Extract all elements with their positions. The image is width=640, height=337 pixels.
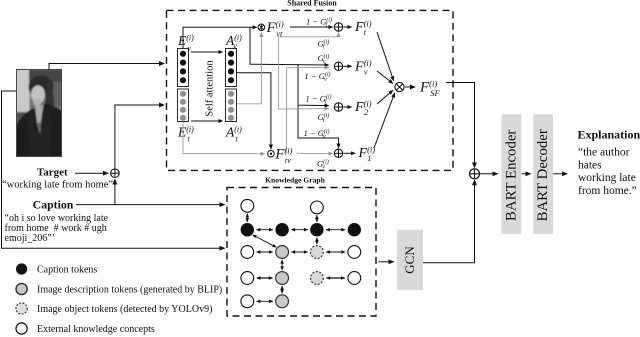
- svg-text:G(i)v: G(i)v: [317, 159, 329, 171]
- svg-text:Knowledge Graph: Knowledge Graph: [265, 176, 325, 185]
- svg-text:1 − G(i)v: 1 − G(i)v: [305, 71, 331, 83]
- svg-text:working late: working late: [578, 172, 636, 184]
- svg-text:A(i)t: A(i)t: [225, 125, 242, 144]
- svg-text:GCN: GCN: [402, 246, 417, 274]
- svg-text:F(i)1: F(i)1: [358, 144, 376, 163]
- svg-text:Shared Fusion: Shared Fusion: [287, 0, 337, 7]
- svg-text:Caption tokens: Caption tokens: [37, 265, 97, 276]
- svg-text:External knowledge concepts: External knowledge concepts: [37, 324, 155, 335]
- svg-text:G(i)t: G(i)t: [318, 112, 330, 124]
- svg-text:from home.”: from home.”: [578, 185, 637, 197]
- svg-text:1 − G(i)t: 1 − G(i)t: [306, 93, 332, 105]
- svg-text:BART Encoder: BART Encoder: [504, 130, 520, 221]
- svg-text:F(i)vt: F(i)vt: [266, 19, 284, 39]
- svg-text:Caption: Caption: [33, 197, 74, 211]
- svg-text:F(i)t: F(i)t: [354, 18, 372, 37]
- svg-text:G(i)t: G(i)t: [318, 38, 330, 50]
- svg-text:Image description tokens (gene: Image description tokens (generated by B…: [37, 285, 222, 296]
- svg-text:F(i)tv: F(i)tv: [274, 145, 292, 165]
- svg-text:“the author: “the author: [578, 147, 630, 159]
- svg-text:F(i)2: F(i)2: [354, 98, 372, 117]
- svg-text:Target: Target: [37, 167, 68, 179]
- svg-text:Self attention: Self attention: [205, 60, 216, 117]
- svg-text:BART Decoder: BART Decoder: [535, 129, 551, 221]
- svg-text:F(i)v: F(i)v: [354, 58, 372, 77]
- svg-text:emoji_206”’: emoji_206”’: [5, 233, 56, 244]
- svg-text:Image object tokens (detected: Image object tokens (detected by YOLOv9): [37, 304, 212, 315]
- svg-text:Explanation: Explanation: [578, 128, 640, 142]
- svg-text:A(i)v: A(i)v: [225, 33, 242, 51]
- svg-text:hates: hates: [578, 159, 602, 171]
- svg-text:G(i)v: G(i)v: [318, 53, 330, 65]
- svg-text:E(i)t: E(i)t: [177, 125, 194, 144]
- svg-text:“working late from home”: “working late from home”: [2, 180, 113, 191]
- svg-text:F(i)SF: F(i)SF: [419, 79, 440, 99]
